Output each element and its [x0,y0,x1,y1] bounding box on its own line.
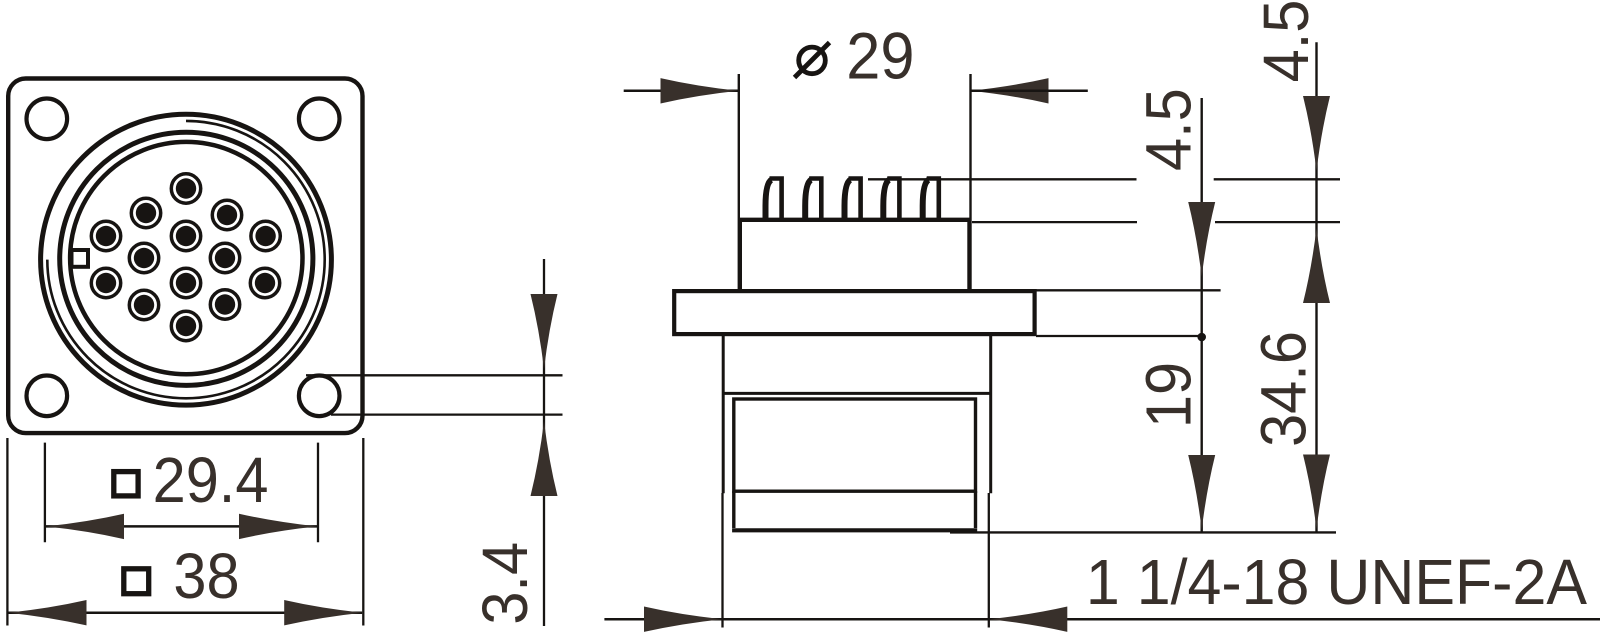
svg-text:1 1/4-18 UNEF-2A: 1 1/4-18 UNEF-2A [1086,547,1587,619]
svg-text:34.6: 34.6 [1249,331,1320,447]
pin 5 [171,221,200,250]
leader from mounting hole bottom tangent [331,413,563,415]
flange bottom leader [1036,335,1202,337]
pin 7 [129,243,158,272]
rear bottom edge [732,528,977,532]
svg-text:4.5: 4.5 [1251,0,1322,82]
svg-text:3.4: 3.4 [470,542,541,625]
body right edge [989,334,992,493]
leader from mounting hole top tangent [306,374,563,376]
arrow 19 bottom [1188,455,1215,530]
dim 29.4 arrow left [46,514,124,539]
key notch [72,250,89,267]
pin 4 [91,221,120,250]
pin 2 [131,198,160,227]
svg-text:38: 38 [173,541,239,612]
pin base leader [972,221,1340,223]
dim 29.4 arrow right [239,514,317,539]
thread root box [734,399,976,491]
pin 14 [171,311,200,340]
diameter symbol [795,43,830,78]
svg-text:29: 29 [846,18,914,93]
pin 6 [251,221,280,250]
thread top line [723,392,991,395]
arrow 34.6 bottom [1303,455,1330,530]
pin 3 [212,200,241,229]
dim 29.4 extension line left [44,443,46,543]
svg-text:19: 19 [1134,362,1205,428]
thread dim arrow right [989,607,1067,632]
thread dim line [604,618,1600,621]
flange square [8,79,362,434]
dim 38 arrow left [9,600,87,625]
thin chamfer arc [47,121,324,398]
dia29 arrow right [971,78,1049,103]
solder pin S3 [845,179,861,223]
dim 38 arrow right [284,600,362,625]
shell inner circle [60,132,313,385]
dim 3.4 arrow upper [531,294,558,369]
solder pin S5 [923,179,939,223]
outer shell circle [41,114,332,405]
mounting hole bottom-left [27,376,68,417]
insulator block [740,222,969,292]
solder pin S4 [883,179,899,223]
pin top leader [868,178,1340,180]
dim 38 extension line right [362,438,364,626]
dia29 arrow left [661,78,739,103]
dia29 extension line left / insulator left edge [738,74,740,291]
pin 8 [210,243,239,272]
dim 38 extension line left [6,438,8,626]
dia29 dim line right tail [971,90,1088,93]
insulator top edge [739,218,972,222]
dim 29.4 square symbol [114,472,138,496]
arrow to flange top [1188,202,1215,277]
solder pin S2 [805,179,821,223]
mounting flange side [674,291,1034,334]
thread dim extension line left [721,493,723,628]
dia29 dim line left tail [624,90,739,93]
pin 13 [210,290,239,319]
dim line 4.5/19 [1200,98,1202,532]
svg-text:4.5: 4.5 [1134,88,1205,171]
pin 9 [91,268,120,297]
insert circle [70,142,302,374]
body left edge [722,334,725,493]
rear section [734,491,976,528]
pin 11 [250,268,279,297]
dim 3.4 line [543,259,545,626]
pin 12 [129,290,158,319]
dia29 extension line right / insulator right edge [969,74,971,291]
dim line 4.5/34.6 [1315,42,1317,531]
dim 38 line [9,611,363,614]
arrow pin-top [1303,96,1330,171]
baseline leader to right stack [950,531,1336,533]
mounting hole bottom-right [299,376,340,417]
thread dim arrow left [644,607,722,632]
arrow 34.6 top [1303,228,1330,303]
dim 29.4 line [46,525,317,528]
pin 10 [171,268,200,297]
svg-text:29.4: 29.4 [153,445,269,516]
dim 3.4 arrow lower [531,421,558,496]
dim 38 square symbol [124,569,149,594]
mounting hole top-right [299,99,340,140]
thread dim extension line right [988,493,990,628]
junction dot [1197,333,1206,342]
solder pin S1 [766,179,782,223]
dim 29.4 extension line right [317,443,319,543]
pin 1 [171,174,200,203]
flange top leader [1036,289,1221,291]
mounting hole top-left [27,99,68,140]
